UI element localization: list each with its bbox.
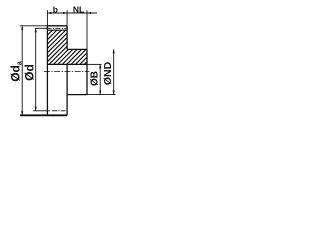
Oda dimension line	[21, 26, 23, 115]
b left arrow	[47, 12, 51, 14]
bore line	[47, 63, 87, 65]
svg-text:NL: NL	[73, 4, 84, 14]
bottom tip line / Oda extension	[20, 114, 67, 116]
Od top arrow	[35, 28, 37, 32]
Oda bottom arrow	[21, 111, 23, 115]
gear disc right edge upper	[66, 26, 68, 50]
svg-text:Øda: Øda	[9, 61, 24, 82]
NL right arrow	[87, 12, 91, 14]
pitch line top (dash-dot)	[46, 27, 68, 29]
gear disc left edge	[46, 26, 48, 115]
b dimension extension line left	[46, 10, 48, 26]
svg-text:ØB: ØB	[90, 71, 101, 86]
bottom pitch extension line	[33, 110, 50, 112]
hub right edge	[86, 49, 88, 94]
svg-text:Ød: Ød	[22, 64, 36, 81]
OND bottom arrow	[113, 91, 115, 95]
bottom pitch dash-dot	[52, 110, 66, 112]
OND top arrow	[113, 49, 115, 53]
OB dimension line	[99, 64, 101, 94]
Od dimension line	[35, 28, 37, 111]
hub bottom edge silhouette	[67, 94, 87, 96]
b/NL shared extension line	[66, 10, 68, 26]
hub bottom extension line to OND arrow	[87, 94, 116, 96]
Oda top arrow	[21, 26, 23, 30]
tooth tip line (top edge)	[47, 25, 67, 27]
b right / NL left arrow	[63, 12, 67, 14]
svg-text:ØND: ØND	[102, 61, 114, 85]
hub top edge	[67, 48, 87, 50]
OB top arrow	[99, 64, 101, 68]
top pitch extension line	[35, 27, 47, 29]
svg-text:b: b	[53, 4, 58, 14]
Od bottom arrow	[35, 107, 37, 111]
OND dimension line	[113, 49, 115, 94]
bore extension line to OB arrow	[87, 63, 102, 65]
axis centerline (dash-dot)	[44, 70, 90, 72]
b / NL dimension line	[47, 12, 97, 14]
NL right extension line	[86, 10, 88, 49]
tooth root line	[47, 29, 67, 31]
OB bottom arrow	[99, 91, 101, 95]
top tip extension line	[20, 25, 48, 27]
gear body hatched section	[12, 28, 120, 66]
gear disc right edge lower	[66, 64, 68, 115]
